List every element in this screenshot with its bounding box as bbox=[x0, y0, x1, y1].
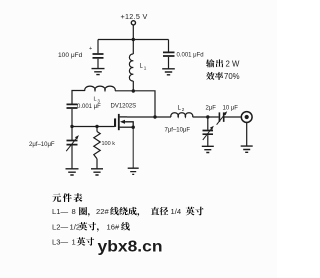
ground C4 bbox=[66, 169, 79, 175]
svg-text:L: L bbox=[94, 97, 97, 103]
wire C1 top stub bbox=[97, 40, 99, 54]
wire source to ground bbox=[132, 127, 134, 168]
svg-text:1: 1 bbox=[72, 238, 76, 247]
wire C3 to gate node bbox=[71, 109, 73, 127]
wire L2 to node bbox=[193, 116, 219, 118]
terminal +12.5V bbox=[131, 21, 135, 25]
svg-text:16#: 16# bbox=[107, 222, 120, 231]
wire supply vertical bbox=[132, 25, 134, 39]
wire C6 top bbox=[207, 117, 209, 130]
wire mid rail left corner bbox=[72, 91, 85, 104]
inductor L3 bbox=[85, 86, 115, 91]
capacitor C6 variable bbox=[203, 131, 214, 135]
ground Q1 source bbox=[128, 168, 139, 174]
inductor L2 bbox=[171, 113, 193, 117]
capacitor C4 variable bbox=[67, 141, 78, 145]
transistor Q1 bbox=[114, 119, 116, 127]
ground C1 bbox=[92, 69, 105, 75]
annotation component list title bbox=[52, 193, 61, 202]
svg-text:L2—: L2— bbox=[52, 222, 68, 231]
wire C6 bottom bbox=[207, 135, 209, 146]
svg-text:22#: 22# bbox=[96, 207, 109, 216]
svg-text:100 k: 100 k bbox=[102, 141, 116, 147]
wire drain rail bbox=[127, 116, 171, 118]
svg-text:70%: 70% bbox=[224, 72, 240, 81]
junction source/body tie bbox=[132, 126, 135, 129]
svg-text:1/4: 1/4 bbox=[171, 207, 182, 216]
svg-text:2μf–10μF: 2μf–10μF bbox=[29, 142, 55, 148]
wire J1 ground bbox=[246, 123, 248, 146]
wire gate row bbox=[72, 126, 115, 128]
wire C5 to connector bbox=[225, 116, 242, 118]
junction supply rail bbox=[132, 38, 135, 41]
wire choke bottom bbox=[132, 81, 134, 91]
svg-text:2μF: 2μF bbox=[206, 106, 217, 112]
svg-text:L3—: L3— bbox=[52, 238, 68, 247]
connector J1 coax output bbox=[241, 112, 252, 123]
svg-text:DV1202S: DV1202S bbox=[111, 104, 137, 110]
ground J1 bbox=[241, 146, 253, 152]
capacitor C1 bbox=[93, 54, 104, 58]
wire mid rail right bbox=[115, 91, 155, 117]
ground C2 bbox=[162, 69, 175, 75]
svg-text:1/2: 1/2 bbox=[70, 222, 81, 231]
junction choke/drain rail bbox=[132, 89, 135, 92]
inductor L1 bbox=[129, 54, 133, 81]
annotation output 2W bbox=[206, 59, 214, 67]
svg-text:7μf–10μF: 7μf–10μF bbox=[165, 128, 191, 134]
junction drain rail bbox=[153, 115, 156, 118]
wire C2 bottom stub bbox=[168, 57, 170, 69]
junction gate node left bbox=[70, 125, 73, 128]
junction resistor top bbox=[95, 125, 98, 128]
capacitor C3 bbox=[67, 104, 78, 108]
wire C4 bottom bbox=[71, 146, 73, 169]
ground C6 bbox=[202, 146, 214, 152]
resistor R1 bbox=[94, 132, 100, 159]
svg-text:1: 1 bbox=[144, 66, 147, 71]
svg-text:10 μF: 10 μF bbox=[223, 106, 239, 112]
svg-text:2 W: 2 W bbox=[226, 59, 241, 68]
wire top rail bbox=[98, 39, 169, 41]
capacitor C2 bbox=[163, 52, 175, 56]
wire C2 drop from rail bbox=[168, 40, 170, 52]
wire C1 bottom stub bbox=[97, 59, 99, 68]
svg-text:0.001 μF: 0.001 μF bbox=[77, 104, 101, 110]
junction output node bbox=[206, 115, 209, 118]
svg-text:8: 8 bbox=[72, 207, 76, 216]
wire C4 top bbox=[71, 127, 73, 140]
wire choke top bbox=[132, 40, 134, 55]
svg-text:0.001 μFd: 0.001 μFd bbox=[177, 53, 204, 59]
svg-text:100 μFd: 100 μFd bbox=[58, 52, 83, 59]
capacitor C5 variable bbox=[219, 112, 223, 122]
svg-text:ybx8.cn: ybx8.cn bbox=[98, 239, 163, 256]
wire R1 top stub bbox=[96, 127, 98, 132]
svg-text:+12.5 V: +12.5 V bbox=[121, 12, 148, 21]
wire R1 bottom stub bbox=[96, 159, 98, 169]
ground R1 bbox=[91, 169, 103, 175]
svg-text:+: + bbox=[89, 46, 92, 52]
annotation efficiency 70% bbox=[206, 72, 214, 80]
svg-text:L1—: L1— bbox=[52, 207, 68, 216]
svg-text:2: 2 bbox=[182, 107, 185, 112]
